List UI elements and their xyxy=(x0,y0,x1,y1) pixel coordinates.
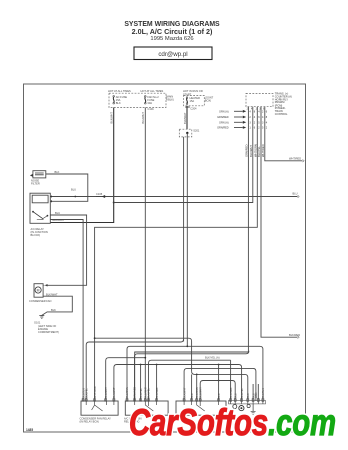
svg-text:BLK/WHT: BLK/WHT xyxy=(249,145,253,157)
wire y357.7: fuse2 branch to box A xyxy=(106,358,146,401)
svg-text:BLK: BLK xyxy=(51,308,56,312)
relay output wire 2 down to bottom xyxy=(50,220,83,402)
svg-text:BLU/RED: BLU/RED xyxy=(230,387,233,398)
svg-text:GRN (A): GRN (A) xyxy=(219,110,229,113)
svg-text:HOT AT ALL TIMES: HOT AT ALL TIMES xyxy=(108,89,131,93)
fan connector arrow xyxy=(43,284,47,286)
svg-text:1485: 1485 xyxy=(26,428,33,432)
relay output BLU wire to fan xyxy=(47,215,86,285)
svg-text:BLU: BLU xyxy=(55,211,60,215)
watermark CarSoftos.com xyxy=(129,402,336,443)
svg-text:GRN/RED: GRN/RED xyxy=(217,116,229,119)
wire: PCM pin2 to fuse1 line xyxy=(114,107,253,203)
svg-text:BLK/WHT: BLK/WHT xyxy=(110,112,114,124)
fan ground wire xyxy=(42,296,73,315)
wire y342: ignition left leg to x86.2 down to box A xyxy=(86,339,183,401)
pin line 4 xyxy=(261,107,298,338)
svg-text:HOT AT ALL TIMES: HOT AT ALL TIMES xyxy=(141,89,164,93)
svg-text:6: 6 xyxy=(258,116,260,119)
splice box S201 xyxy=(179,129,192,137)
wire y368.4 xyxy=(184,368,256,401)
wire y364.5 xyxy=(114,365,242,402)
svg-text:BLK/YEL: BLK/YEL xyxy=(257,146,261,157)
long wire y196.5 relay to BLU end xyxy=(50,196,297,198)
connector ticks below F3 xyxy=(185,106,190,107)
wire y360.2 xyxy=(149,360,231,401)
pin line 1 xyxy=(135,107,249,401)
wire y380.5 pi inner xyxy=(200,381,235,402)
svg-text:BLU: BLU xyxy=(71,188,76,192)
wire label stubs (rotated smudges) xyxy=(82,386,265,398)
wire: splice left leg down xyxy=(183,137,185,342)
svg-text:CONTROL: CONTROL xyxy=(275,112,288,116)
svg-text:BLK/WHT: BLK/WHT xyxy=(113,387,116,398)
svg-text:(IN RELAY BOX): (IN RELAY BOX) xyxy=(80,420,100,424)
svg-text:8: 8 xyxy=(266,116,268,119)
svg-text:BLU/RED: BLU/RED xyxy=(156,387,159,398)
condenser fan motor xyxy=(34,284,43,298)
email box xyxy=(134,47,212,60)
PCM dashed box xyxy=(246,93,273,106)
pin numbers below PCM xyxy=(247,108,265,110)
svg-text:BLK/WHT: BLK/WHT xyxy=(46,292,58,296)
svg-text:M: M xyxy=(37,288,40,292)
svg-text:WHT/RED: WHT/RED xyxy=(289,156,301,160)
arrow wires into PCM xyxy=(234,110,246,129)
svg-text:BLK: BLK xyxy=(116,101,121,105)
rotated labels on pin lines xyxy=(244,144,265,157)
connector arrow on wire xyxy=(96,195,105,197)
svg-text:CONDENSER FAN: CONDENSER FAN xyxy=(29,299,51,303)
svg-text:S201: S201 xyxy=(193,128,200,132)
bottom component box A: condenser fan relay xyxy=(81,401,118,415)
svg-text:BLU/WHT: BLU/WHT xyxy=(199,387,202,398)
svg-text:6: 6 xyxy=(266,110,268,113)
svg-text:BOX): BOX) xyxy=(205,99,211,103)
svg-text:BLU/YEL: BLU/YEL xyxy=(241,387,244,398)
svg-text:BLU/BLK: BLU/BLK xyxy=(262,388,265,398)
svg-text:1995 Mazda 626: 1995 Mazda 626 xyxy=(150,36,193,42)
wire: fuse3 down to splice xyxy=(186,106,188,129)
svg-text:2: 2 xyxy=(258,127,260,130)
ground symbol G101 xyxy=(39,316,44,319)
svg-text:6: 6 xyxy=(254,127,256,130)
svg-text:2: 2 xyxy=(254,121,256,124)
svg-text:15A: 15A xyxy=(190,99,195,103)
svg-text:GRN: GRN xyxy=(255,392,258,398)
svg-text:COMPARTMENT): COMPARTMENT) xyxy=(38,330,59,334)
svg-text:WHT/GRN: WHT/GRN xyxy=(253,144,257,157)
svg-text:BLK/WHT: BLK/WHT xyxy=(53,218,65,222)
svg-text:5: 5 xyxy=(258,121,260,124)
svg-text:C105: C105 xyxy=(96,192,103,196)
svg-text:4: 4 xyxy=(249,110,251,113)
pin number grid at arrow rows xyxy=(249,110,267,129)
svg-text:cdr@wp.pl: cdr@wp.pl xyxy=(158,51,187,58)
relay contact xyxy=(32,211,34,213)
relay coil xyxy=(32,195,48,203)
wire: fuse2 down to bottom xyxy=(144,108,146,402)
svg-text:4: 4 xyxy=(254,116,256,119)
svg-text:BLU: BLU xyxy=(293,191,298,195)
right bottom stub wires xyxy=(253,384,258,401)
wire: fuse1 feed down to relay, branch to PCM xyxy=(50,108,113,223)
svg-text:GRN/RED: GRN/RED xyxy=(217,127,229,130)
pin connector marks at box tops xyxy=(82,399,264,402)
svg-text:30A: 30A xyxy=(147,101,152,105)
svg-text:C101: C101 xyxy=(148,107,155,111)
pin line 3 xyxy=(95,107,258,401)
svg-text:BLK/YEL (A): BLK/YEL (A) xyxy=(205,356,220,360)
diagram border frame xyxy=(24,84,306,432)
wire: splice right leg down xyxy=(186,133,188,346)
bottom component box D connector row xyxy=(231,401,263,404)
thermo circle xyxy=(233,405,237,409)
svg-text:GRN/RED: GRN/RED xyxy=(134,387,137,398)
svg-text:2: 2 xyxy=(262,110,264,113)
bottom component box C xyxy=(176,401,226,415)
svg-text:1: 1 xyxy=(249,127,251,130)
svg-text:BLU/WHT: BLU/WHT xyxy=(105,387,108,398)
arrow wire 2 xyxy=(234,116,243,118)
svg-text:BLK/YEL: BLK/YEL xyxy=(148,388,151,398)
svg-text:4: 4 xyxy=(258,110,260,113)
svg-text:2: 2 xyxy=(249,116,251,119)
svg-text:BLU/YEL: BLU/YEL xyxy=(140,387,143,398)
fuse F1 (ABS 15A) xyxy=(113,95,127,105)
svg-text:8: 8 xyxy=(254,110,256,113)
middle vertical x218.6 xyxy=(218,365,220,402)
svg-text:3: 3 xyxy=(249,121,251,124)
arrow wire 4 xyxy=(234,127,243,129)
svg-text:BLK: BLK xyxy=(55,170,60,174)
junction dot xyxy=(74,196,76,198)
svg-text:GRN (A): GRN (A) xyxy=(219,121,229,124)
ground stub below connector row xyxy=(251,404,256,414)
bottom component box B xyxy=(125,401,168,415)
wire: capacitor to relay xyxy=(46,174,88,201)
svg-text:CarSoftos.com: CarSoftos.com xyxy=(129,402,336,443)
svg-text:BLU: BLU xyxy=(234,393,237,398)
svg-text:BLU/WHT: BLU/WHT xyxy=(141,112,145,124)
arrow wire 3 xyxy=(234,121,243,123)
svg-text:2.0L, A/C Circuit (1 of 2): 2.0L, A/C Circuit (1 of 2) xyxy=(132,27,213,36)
arrow into relay second wire xyxy=(50,200,52,203)
svg-text:4: 4 xyxy=(262,116,264,119)
svg-text:BLOCK): BLOCK) xyxy=(31,233,41,237)
svg-text:BLU: BLU xyxy=(191,393,194,398)
svg-text:F/BLK): F/BLK) xyxy=(166,98,174,102)
wire y346.3: ignition right leg T to x262.9 and x156.6 xyxy=(187,346,263,401)
svg-text:BLK: BLK xyxy=(247,393,250,398)
svg-text:BLU/ORN: BLU/ORN xyxy=(126,387,129,398)
svg-text:2: 2 xyxy=(266,127,268,130)
junction on fuse1 line xyxy=(113,202,115,204)
wire y374.4 pi outer xyxy=(192,371,248,401)
pin line 5 xyxy=(265,107,303,161)
arrow wire labels xyxy=(217,110,229,129)
svg-text:3: 3 xyxy=(262,121,264,124)
svg-text:BLK/YEL: BLK/YEL xyxy=(85,388,88,398)
A/C relay box xyxy=(30,193,50,223)
noise capacitor box xyxy=(33,171,46,178)
svg-text:WHT/RED: WHT/RED xyxy=(261,144,265,157)
svg-text:4: 4 xyxy=(266,121,268,124)
wire y353.8: PCM pin1 to box B xyxy=(135,351,249,401)
svg-text:WHT/GRN: WHT/GRN xyxy=(94,386,97,398)
wire y338.2 to pi-outer left xyxy=(95,338,192,371)
svg-text:C204: C204 xyxy=(190,106,197,110)
svg-text:GRN/RED: GRN/RED xyxy=(244,145,248,157)
dashed box fuse F3 (HEATER) xyxy=(184,96,205,106)
svg-text:5: 5 xyxy=(262,127,264,130)
fuse block dashed box xyxy=(109,93,166,107)
PCM name text block xyxy=(275,92,292,116)
arrow wire 1 xyxy=(234,110,243,112)
svg-text:BLK/WHT: BLK/WHT xyxy=(183,112,187,124)
svg-text:FILTER: FILTER xyxy=(31,182,40,186)
fuse F2 (A/C 15A) xyxy=(145,95,160,105)
svg-text:BLK: BLK xyxy=(218,393,221,398)
svg-text:BLK/WHT: BLK/WHT xyxy=(183,387,186,398)
